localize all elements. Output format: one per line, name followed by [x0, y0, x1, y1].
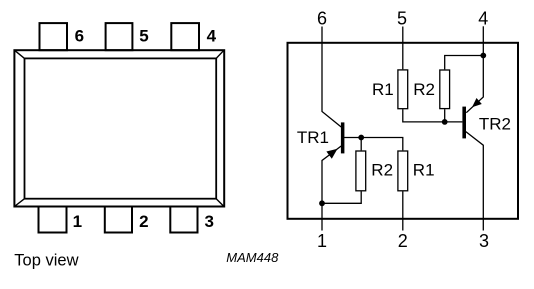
svg-text:R1: R1 — [372, 80, 394, 99]
package pin 1 pad — [39, 207, 67, 233]
wire TR2 emitter lead — [466, 56, 483, 113]
transistor TR2 emitter arrow — [472, 98, 482, 107]
package pin 4 pad — [171, 23, 199, 50]
wire pin6 to TR1 collector — [322, 27, 341, 128]
junction node emitter/pin1 — [319, 200, 325, 206]
package bevel top-right — [216, 50, 224, 58]
wire TR2 collector to pin3 — [466, 132, 484, 231]
junction node pin4 — [480, 53, 486, 59]
svg-text:R2: R2 — [413, 80, 435, 99]
wire R1 bottom-right to pin2 — [402, 191, 404, 230]
svg-text:Top view: Top view — [14, 251, 78, 269]
wire TR1 emitter to pin1 — [322, 146, 341, 231]
svg-text:1: 1 — [73, 212, 82, 231]
wire R2 bottom to TR2 base node — [444, 109, 446, 122]
svg-text:1: 1 — [317, 231, 327, 251]
svg-text:R1: R1 — [413, 161, 435, 180]
resistor R2 top-right body — [440, 70, 450, 109]
transistor TR1 base bar — [341, 122, 345, 153]
package pin 2 pad — [105, 207, 132, 233]
package body outer outline — [14, 50, 224, 206]
resistor R1 bottom-right body — [398, 151, 408, 191]
package bevel bottom-left — [14, 199, 24, 207]
svg-text:3: 3 — [479, 231, 489, 251]
svg-text:6: 6 — [75, 27, 84, 46]
svg-text:MAM448: MAM448 — [226, 250, 279, 265]
wire R2 bottom-left bottom to emitter node — [322, 191, 361, 203]
svg-text:2: 2 — [139, 212, 148, 231]
package bevel bottom-right — [216, 199, 224, 207]
wire R1 bottom to TR2 base row — [403, 109, 463, 122]
package pin 5 pad — [106, 23, 133, 50]
package bevel top-left — [14, 50, 24, 58]
svg-text:3: 3 — [204, 212, 213, 231]
package pin 6 pad — [40, 23, 68, 50]
svg-text:5: 5 — [397, 9, 407, 29]
resistor R2 bottom-left body — [356, 151, 366, 191]
wire TR1 base node to R2 bottom-left top — [360, 138, 362, 151]
svg-text:R2: R2 — [371, 161, 393, 180]
svg-text:2: 2 — [398, 231, 408, 251]
svg-text:TR1: TR1 — [297, 128, 329, 147]
resistor R1 top-left body — [398, 70, 408, 109]
package body inner outline — [25, 58, 217, 198]
transistor TR1 emitter arrow — [326, 149, 337, 159]
svg-text:6: 6 — [317, 9, 327, 29]
svg-text:4: 4 — [478, 9, 488, 29]
junction node TR2 base — [442, 119, 448, 125]
svg-text:5: 5 — [139, 27, 148, 46]
svg-text:TR2: TR2 — [479, 114, 511, 133]
wire node to R2 top — [445, 56, 484, 70]
svg-text:4: 4 — [207, 27, 217, 46]
package pin 3 pad — [170, 207, 197, 233]
wire TR1 base row to R1 bottom-right top — [344, 138, 403, 151]
schematic enclosure box — [288, 43, 519, 219]
wire pin5 to R1 top — [402, 27, 404, 70]
junction node TR1 base — [358, 135, 364, 141]
transistor TR2 base bar — [462, 107, 466, 139]
wire pin4 to node — [482, 26, 484, 55]
